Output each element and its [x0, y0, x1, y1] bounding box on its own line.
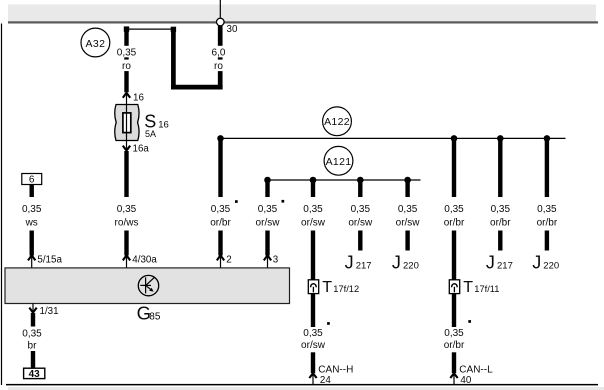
- svg-text:85: 85: [149, 312, 161, 323]
- svg-text:5/15a: 5/15a: [37, 255, 62, 266]
- svg-text:ro: ro: [214, 61, 223, 72]
- svg-text:br: br: [28, 340, 38, 351]
- svg-text:1/31: 1/31: [40, 306, 59, 317]
- relay J217 label (right): [486, 252, 513, 272]
- svg-text:or/br: or/br: [210, 217, 231, 228]
- wire 0,35 or/sw below T17f/12: [301, 294, 326, 374]
- svg-text:6,0: 6,0: [212, 47, 226, 58]
- pin 16 arrow (fuse input): [123, 92, 145, 103]
- pin 3 arrow into G85: [264, 255, 279, 268]
- svg-text:or/sw: or/sw: [256, 217, 281, 228]
- reference dot: [468, 320, 471, 323]
- svg-text:or/br: or/br: [537, 217, 558, 228]
- bus bar 30 (top supply rail): [8, 5, 598, 24]
- reference dot: [282, 200, 285, 203]
- svg-text:or/sw: or/sw: [301, 217, 326, 228]
- wire 0,35 or/br to J217 (right): [490, 138, 511, 250]
- svg-text:3: 3: [273, 255, 279, 266]
- svg-text:40: 40: [460, 375, 471, 386]
- wire 0,35 or/br to J220 (right): [537, 138, 558, 250]
- wire 0,35 ro (down to fuse S16): [113, 27, 140, 93]
- A121 wire (horizontal): [268, 179, 421, 181]
- pin 16a arrow (fuse output): [123, 143, 150, 154]
- wire 0,35 or/sw to J220 (left): [396, 180, 421, 251]
- svg-text:J: J: [486, 252, 495, 272]
- wire 0,35 or/sw CAN-H (A121 down to T17f/12 and pin 24): [301, 180, 326, 283]
- reference dot: [235, 200, 238, 203]
- junction dots on A122 wire: [217, 135, 550, 142]
- svg-text:0,35: 0,35: [491, 204, 511, 215]
- svg-text:0,35: 0,35: [258, 204, 278, 215]
- svg-text:217: 217: [356, 260, 372, 271]
- svg-text:J: J: [392, 252, 401, 272]
- pin 1/31 arrow out of G85: [29, 304, 58, 317]
- svg-text:17f/12: 17f/12: [333, 284, 359, 294]
- connector box 6: [22, 174, 42, 186]
- wire 0,35 or/br below T17f/11: [444, 294, 465, 374]
- junction at top of wire 0,35 ro: [124, 26, 129, 31]
- wire 0,35 ro/ws (fuse to G85 pin 4/30a): [115, 151, 139, 256]
- svg-text:0,35: 0,35: [537, 204, 557, 215]
- A122 wire (horizontal): [221, 137, 566, 139]
- svg-text:4/30a: 4/30a: [132, 255, 157, 266]
- pin 5/15a arrow into G85: [28, 255, 62, 268]
- wire 0,35 br (G85 to ground 43): [22, 313, 42, 368]
- svg-text:or/sw: or/sw: [301, 340, 326, 351]
- svg-text:17f/11: 17f/11: [474, 284, 499, 294]
- svg-text:0,35: 0,35: [398, 204, 418, 215]
- svg-text:0,35: 0,35: [22, 204, 42, 215]
- connector T17f/12: [308, 279, 359, 296]
- junction at top of 6,0 ro wire: [171, 27, 176, 32]
- svg-text:16: 16: [158, 120, 169, 131]
- svg-text:0,35: 0,35: [117, 47, 137, 58]
- svg-text:ro: ro: [122, 61, 131, 72]
- svg-text:A32: A32: [85, 38, 105, 50]
- svg-text:T: T: [463, 279, 473, 296]
- relay J217 label (left): [345, 252, 372, 272]
- svg-text:or/sw: or/sw: [348, 217, 373, 228]
- G85 label: [137, 303, 161, 324]
- svg-text:0,35: 0,35: [211, 204, 231, 215]
- svg-text:2: 2: [226, 255, 231, 266]
- svg-text:43: 43: [29, 369, 41, 380]
- svg-text:16: 16: [133, 92, 144, 103]
- wire feed from top to terminal 30: [219, 0, 221, 18]
- svg-text:0,35: 0,35: [117, 204, 137, 215]
- svg-text:217: 217: [497, 260, 513, 271]
- node A122: [323, 107, 352, 136]
- svg-text:J: J: [532, 252, 541, 272]
- svg-text:T: T: [322, 279, 332, 296]
- sensor symbol inside G85: [138, 275, 158, 295]
- svg-text:220: 220: [543, 260, 559, 271]
- junction dots on A121 wire: [264, 177, 411, 184]
- wire 0,35 or/sw to J217 (left): [348, 180, 373, 251]
- wire link (thin) between 0,35 ro wire and 6,0 ro wire: [127, 28, 174, 30]
- frame bottom border line: [6, 384, 598, 386]
- fuse S16 body: [115, 105, 139, 141]
- svg-text:0,35: 0,35: [444, 204, 464, 215]
- reference dot: [327, 322, 330, 325]
- svg-text:30: 30: [227, 24, 238, 35]
- control unit J220 label (left): [392, 252, 419, 272]
- ground box 43: [24, 368, 45, 380]
- wire 0,35 ws (box 6 to G85 pin 5/15a): [22, 185, 42, 256]
- node A121: [324, 146, 353, 175]
- pin 40 CAN--L arrow at bottom: [450, 365, 493, 386]
- frame left border line: [1, 24, 3, 386]
- pin 4/30a arrow into G85: [123, 255, 158, 268]
- svg-text:or/sw: or/sw: [396, 217, 421, 228]
- terminal 30 circle: [217, 18, 238, 35]
- node A32: [81, 28, 110, 57]
- svg-text:6: 6: [29, 175, 35, 186]
- svg-text:24: 24: [320, 375, 331, 386]
- svg-text:A122: A122: [324, 116, 350, 128]
- svg-text:or/br: or/br: [444, 340, 465, 351]
- svg-text:A121: A121: [326, 156, 352, 168]
- svg-text:or/br: or/br: [444, 217, 465, 228]
- svg-text:0,35: 0,35: [351, 204, 371, 215]
- svg-text:ro/ws: ro/ws: [115, 217, 139, 228]
- control unit J220 label (right): [532, 252, 559, 272]
- wire 0,35 or/br CAN-L (A122 down to T17f/11 and pin 40): [444, 138, 465, 282]
- fuse S16 value label: [144, 112, 168, 139]
- svg-text:0,35: 0,35: [303, 204, 323, 215]
- sensor G85 box: [5, 268, 290, 304]
- svg-text:ws: ws: [25, 217, 38, 228]
- bottom gray strip (next rail): [8, 387, 604, 390]
- wire 0,35 or/sw (A121 to G85 pin 3): [256, 180, 281, 256]
- svg-text:16a: 16a: [133, 143, 150, 154]
- wire 0,35 or/br (A122 to G85 pin 2): [210, 138, 231, 255]
- wire 6,0 ro (loop from terminal 30): [171, 26, 231, 90]
- svg-text:0,35: 0,35: [22, 328, 42, 339]
- svg-text:or/br: or/br: [490, 217, 511, 228]
- thin lead through fuse: [126, 93, 128, 151]
- svg-text:220: 220: [403, 260, 419, 271]
- pin 2 arrow into G85: [217, 255, 232, 268]
- svg-text:5A: 5A: [145, 129, 156, 139]
- connector T17f/11: [449, 279, 499, 296]
- pin 24 CAN--H arrow at bottom: [309, 365, 353, 386]
- svg-text:0,35: 0,35: [303, 328, 323, 339]
- svg-text:0,35: 0,35: [444, 328, 464, 339]
- svg-text:J: J: [345, 252, 354, 272]
